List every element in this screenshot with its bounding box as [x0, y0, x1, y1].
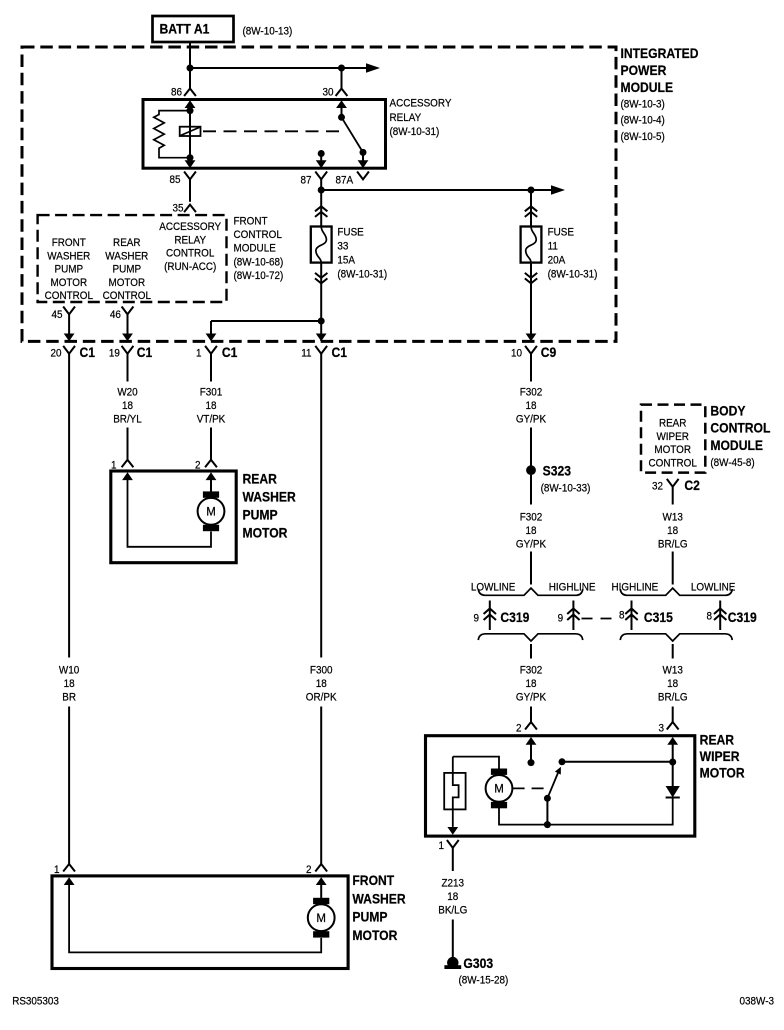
- front washer pump motor box: [52, 876, 348, 969]
- svg-text:30: 30: [322, 87, 333, 99]
- pin 10 terminal arrow: [526, 334, 537, 342]
- pin 45 connector: [63, 307, 75, 315]
- pin 1 terminal arrow: [206, 334, 217, 342]
- wire F300 lower: [320, 707, 322, 865]
- wire W10 upper: [68, 354, 70, 658]
- svg-text:(RUN-ACC): (RUN-ACC): [164, 261, 216, 273]
- svg-text:INTEGRATED: INTEGRATED: [620, 45, 698, 61]
- svg-text:M: M: [494, 784, 504, 796]
- svg-text:RS305303: RS305303: [12, 996, 59, 1008]
- svg-text:18: 18: [122, 401, 133, 413]
- svg-text:G303: G303: [463, 955, 493, 971]
- svg-text:20A: 20A: [548, 255, 566, 267]
- svg-text:32: 32: [652, 481, 663, 493]
- pin 86 connector: [184, 89, 196, 97]
- splice S323: [526, 465, 536, 475]
- wire W13 upper: [672, 487, 674, 505]
- svg-text:15A: 15A: [337, 255, 355, 267]
- svg-text:(8W-10-31): (8W-10-31): [337, 269, 387, 281]
- integrated power module box: [22, 47, 616, 341]
- svg-text:W13: W13: [663, 665, 684, 677]
- svg-text:C319: C319: [500, 609, 529, 625]
- svg-text:WASHER: WASHER: [47, 251, 90, 263]
- connector C1 pin 20: [63, 346, 75, 354]
- svg-text:WASHER: WASHER: [105, 251, 148, 263]
- connector C315 highline pin 8: [631, 601, 633, 631]
- wire rear wiper pin 2 stub: [530, 744, 532, 762]
- svg-text:(8W-45-8): (8W-45-8): [710, 458, 754, 470]
- pin 1 connector rear wiper: [447, 840, 459, 848]
- pin 30 connector: [336, 89, 348, 97]
- connector C2 pin 32: [667, 479, 679, 487]
- svg-text:WIPER: WIPER: [656, 431, 689, 443]
- wire F301 upper: [210, 354, 212, 382]
- svg-text:W10: W10: [59, 665, 80, 677]
- svg-text:18: 18: [447, 892, 458, 904]
- motor mechanical dashed link: [513, 787, 545, 789]
- wire fuse 33 to C1: [320, 263, 322, 341]
- node pin 3 junction: [669, 759, 676, 766]
- svg-text:PUMP: PUMP: [113, 264, 142, 276]
- svg-text:MODULE: MODULE: [710, 437, 763, 453]
- brace bottom left group: [478, 634, 582, 641]
- pin 1 terminal arrow rear washer: [122, 472, 133, 480]
- wire switch pivot down: [546, 798, 548, 824]
- wire F301 lower: [210, 428, 212, 460]
- connector C1 pin 19: [122, 346, 134, 354]
- wire W13 to rear wiper: [672, 707, 674, 723]
- rear wiper switch lever: [547, 772, 558, 798]
- wire pin 46 to C1: [127, 314, 129, 334]
- wire F302 upper: [530, 354, 532, 382]
- svg-text:BR/LG: BR/LG: [658, 539, 688, 551]
- wire park switch to motor top: [453, 757, 499, 770]
- wire front washer pin1 loop: [69, 884, 321, 952]
- svg-text:F301: F301: [200, 387, 223, 399]
- svg-text:8: 8: [706, 611, 712, 623]
- wire fuse 11 feed: [530, 190, 532, 227]
- svg-text:REAR: REAR: [242, 471, 276, 487]
- node switch upper contact: [559, 758, 566, 765]
- node relay pin 30 branch: [338, 65, 345, 72]
- svg-text:FRONT: FRONT: [52, 238, 87, 250]
- svg-text:(8W-10-3): (8W-10-3): [620, 99, 664, 111]
- pin 1 connector rear washer: [122, 460, 134, 468]
- svg-text:F302: F302: [520, 387, 543, 399]
- pin 2 connector rear wiper: [525, 722, 537, 730]
- wire F302 below connector: [530, 644, 532, 659]
- svg-text:MOTOR: MOTOR: [654, 445, 691, 457]
- node pin 2 contact: [528, 759, 535, 766]
- wire rear wiper pin 3 down: [672, 744, 674, 786]
- svg-text:MOTOR: MOTOR: [352, 927, 397, 943]
- svg-text:19: 19: [109, 348, 120, 360]
- svg-text:C1: C1: [79, 344, 95, 360]
- svg-text:C1: C1: [222, 344, 238, 360]
- svg-text:WIPER: WIPER: [700, 748, 740, 764]
- pin 1 connector front washer: [63, 864, 75, 872]
- svg-text:10: 10: [511, 348, 522, 360]
- wire rear washer pin1 loop: [128, 480, 212, 547]
- pin 11 terminal arrow: [316, 334, 327, 342]
- svg-text:87: 87: [300, 175, 311, 187]
- svg-text:BK/LG: BK/LG: [438, 905, 467, 917]
- svg-text:M: M: [316, 913, 326, 925]
- svg-text:F302: F302: [520, 512, 543, 524]
- svg-text:(8W-10-33): (8W-10-33): [541, 483, 591, 495]
- svg-text:BATT A1: BATT A1: [159, 21, 209, 37]
- pin 20 terminal arrow: [64, 334, 75, 342]
- svg-text:45: 45: [51, 310, 62, 322]
- svg-text:(8W-10-72): (8W-10-72): [233, 270, 283, 282]
- wire relay 87 down to fuse 33: [320, 179, 322, 226]
- svg-text:038W-3: 038W-3: [740, 996, 775, 1008]
- dashed link between options: [582, 618, 613, 620]
- pin 85 terminal arrow: [185, 160, 196, 168]
- svg-text:BR/YL: BR/YL: [113, 414, 142, 426]
- brace top left group: [478, 588, 582, 595]
- connector C1 pin 1: [205, 346, 217, 354]
- wire fuse 11 to C9: [530, 263, 532, 341]
- svg-text:PUMP: PUMP: [242, 507, 277, 523]
- wire contact 87 stub: [320, 154, 322, 161]
- svg-text:F302: F302: [520, 665, 543, 677]
- svg-text:C1: C1: [331, 344, 347, 360]
- svg-text:REAR: REAR: [700, 732, 734, 748]
- svg-text:Z213: Z213: [442, 878, 465, 890]
- node coil bottom: [187, 154, 194, 161]
- svg-text:W13: W13: [663, 512, 684, 524]
- wire rear washer pin2 to motor: [210, 480, 212, 492]
- motor M2 rear wiper: [491, 769, 507, 775]
- svg-text:87A: 87A: [336, 175, 354, 187]
- svg-text:PUMP: PUMP: [55, 264, 84, 276]
- wire W10 lower: [68, 707, 70, 865]
- wire F302 to rear wiper: [530, 707, 532, 723]
- node switch throw 87A: [360, 149, 367, 156]
- wire F302 to splice: [530, 428, 532, 471]
- svg-text:85: 85: [169, 175, 180, 187]
- svg-text:C319: C319: [728, 609, 757, 625]
- wire front washer pin2 to motor: [320, 884, 322, 898]
- svg-text:BR/LG: BR/LG: [658, 692, 688, 704]
- front control module box: [38, 215, 227, 302]
- wire battery feed bus to right: [190, 67, 367, 69]
- svg-text:OR/PK: OR/PK: [306, 692, 337, 704]
- svg-text:REAR: REAR: [659, 418, 687, 430]
- wire F300 upper: [320, 354, 322, 658]
- fuse 33 upper connector: [315, 206, 327, 211]
- connector C319 lowline pin 8: [719, 601, 721, 631]
- body control module box: [641, 405, 705, 473]
- svg-text:18: 18: [525, 401, 536, 413]
- svg-text:MOTOR: MOTOR: [108, 277, 145, 289]
- fuse F33: [311, 227, 332, 263]
- svg-text:GY/PK: GY/PK: [516, 539, 546, 551]
- wire W13 to inline connector: [672, 552, 674, 585]
- svg-text:FUSE: FUSE: [548, 227, 574, 239]
- battery feed box BATT A1: [153, 16, 234, 42]
- svg-text:FRONT: FRONT: [352, 872, 394, 888]
- svg-text:MOTOR: MOTOR: [242, 525, 287, 541]
- svg-text:CONTROL: CONTROL: [166, 248, 215, 260]
- svg-text:HIGHLINE: HIGHLINE: [549, 582, 596, 594]
- svg-text:11: 11: [301, 348, 311, 360]
- pin 30 terminal arrow: [336, 100, 347, 108]
- brace top right group: [620, 588, 732, 595]
- svg-text:FUSE: FUSE: [337, 227, 363, 239]
- pin 87A terminal arrow: [358, 160, 369, 168]
- svg-text:20: 20: [50, 348, 61, 360]
- pin 85 connector: [184, 172, 196, 180]
- wire F302 to inline connector: [530, 552, 532, 585]
- resistor in relay: [154, 111, 190, 158]
- fuse 11 lower connector: [525, 273, 537, 278]
- svg-text:1: 1: [196, 348, 202, 360]
- diode CR1 rear wiper: [666, 786, 680, 798]
- svg-text:(8W-10-68): (8W-10-68): [233, 257, 283, 269]
- pin 2 terminal arrow rear washer: [206, 472, 217, 480]
- svg-text:ACCESSORY: ACCESSORY: [159, 222, 221, 234]
- svg-text:MOTOR: MOTOR: [50, 277, 87, 289]
- svg-text:MODULE: MODULE: [233, 243, 275, 255]
- node pin 1 branch: [318, 318, 325, 325]
- svg-text:18: 18: [316, 679, 327, 691]
- connector C1 pin 11: [315, 346, 327, 354]
- svg-text:ACCESSORY: ACCESSORY: [390, 98, 452, 110]
- wire W20 lower: [127, 428, 129, 460]
- svg-text:F300: F300: [310, 665, 333, 677]
- connector C319 lowline pin 9: [489, 601, 491, 631]
- svg-text:CONTROL: CONTROL: [45, 291, 94, 303]
- svg-text:MOTOR: MOTOR: [700, 765, 745, 781]
- svg-text:RELAY: RELAY: [174, 235, 206, 247]
- svg-text:CONTROL: CONTROL: [233, 230, 282, 242]
- park switch symbol: [444, 773, 465, 810]
- pin 2 terminal arrow rear wiper: [526, 737, 537, 745]
- svg-text:8: 8: [619, 610, 625, 622]
- svg-text:GY/PK: GY/PK: [516, 692, 546, 704]
- svg-text:(8W-10-13): (8W-10-13): [242, 26, 292, 38]
- svg-text:FRONT: FRONT: [233, 216, 268, 228]
- svg-text:WASHER: WASHER: [242, 489, 295, 505]
- node fuse 11 branch: [528, 187, 535, 194]
- svg-text:1: 1: [438, 841, 444, 853]
- svg-text:PUMP: PUMP: [352, 909, 387, 925]
- wire switch contact line: [562, 761, 673, 763]
- pin 3 terminal arrow rear wiper: [667, 737, 678, 745]
- svg-text:CONTROL: CONTROL: [649, 458, 698, 470]
- svg-text:S323: S323: [543, 463, 571, 479]
- svg-text:(8W-10-5): (8W-10-5): [620, 131, 664, 143]
- wire motor bottom loop: [499, 798, 673, 825]
- motor M3 front washer pump: [313, 898, 329, 904]
- connector highline pin 9: [572, 601, 574, 631]
- pin 1 terminal arrow rear wiper: [447, 827, 458, 835]
- svg-text:MODULE: MODULE: [620, 79, 673, 95]
- wire throw 87A stub: [362, 152, 364, 161]
- wire pin 85 to pin 35: [189, 179, 191, 202]
- svg-text:W20: W20: [117, 387, 138, 399]
- svg-text:LOWLINE: LOWLINE: [691, 582, 736, 594]
- svg-text:BR: BR: [62, 692, 76, 704]
- wire BATT A1 down to relay pin 86: [189, 42, 191, 89]
- svg-text:9: 9: [473, 613, 479, 625]
- svg-text:WASHER: WASHER: [352, 891, 405, 907]
- svg-text:GY/PK: GY/PK: [516, 414, 546, 426]
- node switch pivot rear wiper: [544, 795, 551, 802]
- connector C9 pin 10: [525, 346, 537, 354]
- wire down to relay pin 30: [341, 68, 343, 89]
- svg-text:18: 18: [525, 526, 536, 538]
- node fused feed junction: [318, 187, 325, 194]
- pin 19 terminal arrow: [122, 334, 133, 342]
- relay coil symbol: [180, 127, 201, 136]
- pin 87A connector: [357, 172, 369, 180]
- wire pin 45 to C1: [68, 314, 70, 334]
- pin 86 terminal arrow: [185, 100, 196, 108]
- pin 1 terminal arrow front washer: [64, 877, 75, 885]
- svg-text:LOWLINE: LOWLINE: [471, 582, 516, 594]
- wire fused feed bus to right: [321, 189, 552, 191]
- relay switch common wire: [341, 108, 343, 118]
- svg-text:86: 86: [171, 87, 182, 99]
- svg-text:18: 18: [667, 526, 678, 538]
- svg-text:(8W-10-4): (8W-10-4): [620, 115, 664, 127]
- pin 2 connector front washer: [315, 864, 327, 872]
- wire W13 below connector: [672, 644, 674, 659]
- svg-text:35: 35: [172, 203, 183, 215]
- node bottom junction: [544, 821, 551, 828]
- brace bottom right group: [620, 634, 732, 641]
- svg-text:18: 18: [525, 679, 536, 691]
- pin 3 connector rear wiper: [667, 722, 679, 730]
- svg-text:VT/PK: VT/PK: [197, 414, 226, 426]
- svg-text:3: 3: [658, 723, 664, 735]
- svg-text:11: 11: [548, 241, 558, 253]
- svg-text:C1: C1: [137, 344, 153, 360]
- pin 46 connector: [122, 307, 134, 315]
- svg-text:C9: C9: [541, 344, 557, 360]
- pin 87 terminal arrow: [316, 160, 327, 168]
- fuse 33 lower connector: [315, 273, 327, 278]
- wire Z213 to ground: [452, 920, 454, 959]
- svg-text:33: 33: [337, 241, 348, 253]
- wire relay coil vertical: [189, 108, 191, 159]
- pin 2 connector rear washer: [205, 460, 217, 468]
- pin 2 terminal arrow front washer: [316, 877, 327, 885]
- node contact 87: [318, 150, 325, 157]
- svg-text:18: 18: [667, 679, 678, 691]
- svg-text:18: 18: [64, 679, 75, 691]
- svg-text:C2: C2: [684, 477, 700, 493]
- rear wiper motor box: [426, 736, 695, 836]
- svg-text:(8W-10-31): (8W-10-31): [390, 127, 440, 139]
- rear washer pump motor box: [111, 471, 236, 563]
- node switch pivot: [338, 114, 345, 121]
- svg-text:(8W-10-31): (8W-10-31): [548, 269, 598, 281]
- wire Z213 upper: [452, 848, 454, 871]
- wire W20 upper: [127, 354, 129, 382]
- svg-text:46: 46: [110, 310, 121, 322]
- svg-text:HIGHLINE: HIGHLINE: [611, 582, 658, 594]
- accessory relay U-relay box: [143, 100, 386, 169]
- pin 35 connector: [184, 205, 196, 213]
- node battery feed junction: [187, 65, 194, 72]
- svg-text:18: 18: [205, 401, 216, 413]
- ground G303: [447, 957, 458, 968]
- relay switch lever: [342, 117, 364, 152]
- svg-text:(8W-15-28): (8W-15-28): [458, 975, 508, 987]
- wire branch to FCM pin 1 output: [211, 320, 321, 322]
- svg-text:BODY: BODY: [710, 403, 745, 419]
- svg-text:CONTROL: CONTROL: [103, 291, 152, 303]
- svg-text:REAR: REAR: [113, 238, 141, 250]
- svg-text:POWER: POWER: [620, 62, 666, 78]
- svg-text:RELAY: RELAY: [390, 112, 422, 124]
- fuse F11: [521, 227, 542, 263]
- svg-text:9: 9: [558, 613, 564, 625]
- wire F302 below splice: [530, 475, 532, 505]
- svg-text:CONTROL: CONTROL: [710, 420, 770, 436]
- fuse 11 upper connector: [525, 206, 537, 211]
- svg-text:M: M: [206, 507, 216, 519]
- relay mechanical dashed link: [203, 130, 345, 132]
- node coil top: [187, 107, 194, 114]
- svg-text:C315: C315: [644, 609, 673, 625]
- svg-text:2: 2: [516, 723, 522, 735]
- motor M1 rear washer pump: [203, 491, 219, 497]
- pin 87 connector: [315, 172, 327, 180]
